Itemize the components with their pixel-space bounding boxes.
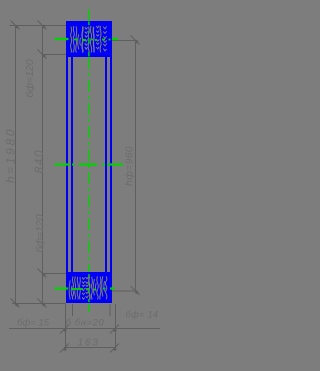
left jamb outer line bbox=[66, 56, 68, 273]
green vertical centerline upper segment bbox=[88, 9, 90, 22]
green axis line y164 left tick bbox=[55, 163, 71, 165]
svg-text:бф= 15: бф= 15 bbox=[17, 318, 50, 329]
dim line E right y40 bbox=[112, 40, 138, 42]
green centerline specks over head block bbox=[88, 22, 90, 57]
dim line F right y291 bbox=[112, 290, 138, 292]
dim line A horizontal top bbox=[10, 25, 67, 27]
svg-text:бф=120: бф=120 bbox=[34, 214, 46, 252]
tick at (115,347) bbox=[110, 344, 119, 353]
green axis line y39 right tick bbox=[112, 38, 118, 40]
green vertical centerline lower segment bbox=[88, 304, 90, 313]
extension line x135 bbox=[135, 40, 137, 291]
dim line H bottom y347 bbox=[64, 347, 116, 349]
green axis line y288 left tick bbox=[55, 287, 69, 289]
svg-text:163: 163 bbox=[77, 337, 99, 349]
dim line B y54 bbox=[42, 54, 66, 56]
svg-text:hф=960: hф=960 bbox=[124, 146, 136, 186]
dim line G bottom y328 bbox=[9, 328, 160, 330]
frame head block bbox=[67, 22, 111, 56]
right jamb outer line bbox=[110, 56, 112, 273]
right jamb inner line bbox=[105, 56, 107, 273]
tick at (42,273) bbox=[38, 269, 47, 278]
dim line C y273 bbox=[42, 273, 66, 275]
tick at (15,25) bbox=[11, 21, 20, 30]
green axis line y164 dot right bbox=[102, 164, 105, 166]
left jamb inner line bbox=[71, 56, 73, 273]
tick at (42,54) bbox=[38, 50, 47, 59]
tick at (42,303) bbox=[38, 299, 47, 308]
frame sill block bbox=[67, 273, 111, 302]
sill block wood grain hatch bbox=[69, 276, 107, 299]
dim line D y303 bbox=[12, 303, 66, 305]
head block wood grain hatch bbox=[71, 26, 107, 53]
svg-text:840: 840 bbox=[34, 149, 46, 174]
extension stub x115 bottom bbox=[115, 304, 117, 350]
tick at (135,40) bbox=[131, 36, 140, 45]
green axis line y288 right tick bbox=[110, 287, 115, 289]
tick at (15,303) bbox=[11, 299, 20, 308]
extension stub x65 bottom bbox=[65, 304, 67, 350]
green axis line y39 specks over head block bbox=[74, 39, 111, 42]
green axis line y164 dot left bbox=[72, 164, 75, 166]
green axis line y164 right tick bbox=[107, 163, 123, 165]
tick at (135,291) bbox=[131, 286, 140, 295]
extension line x15 bbox=[15, 25, 17, 303]
svg-text:бф= 14: бф= 14 bbox=[126, 310, 159, 320]
svg-text:б бн=20: б бн=20 bbox=[66, 318, 105, 329]
tick at (65,328) bbox=[60, 325, 69, 334]
green axis line y164 center dash bbox=[79, 163, 97, 165]
green axis line y39 left tick bbox=[55, 38, 69, 40]
svg-text:h=1980: h=1980 bbox=[4, 127, 18, 183]
extension stub x72 bottom bbox=[72, 304, 74, 316]
green vertical centerline middle segment bbox=[88, 57, 90, 272]
tick at (115,328) bbox=[110, 325, 119, 334]
extension stub x110 bottom bbox=[109, 304, 111, 316]
tick at (65,347) bbox=[60, 344, 69, 353]
extension line x42 bbox=[42, 25, 44, 303]
green centerline specks over sill block bbox=[88, 274, 90, 302]
svg-text:бф=120: бф=120 bbox=[24, 59, 36, 97]
green axis line y288 specks over sill block bbox=[71, 289, 106, 290]
tick at (42,25) bbox=[38, 21, 47, 30]
